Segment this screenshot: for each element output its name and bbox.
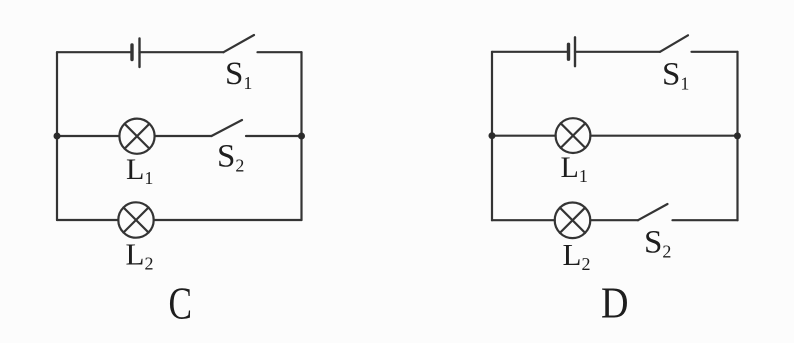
svg-text:C: C — [169, 278, 193, 329]
junction node left (C) — [54, 133, 61, 140]
wire: C middle branch left segment — [57, 135, 119, 137]
junction node right (D) — [734, 132, 741, 139]
wire: D left vertical — [491, 52, 493, 220]
switch S1 blade (C) — [224, 35, 255, 52]
switch S2 blade (D) — [638, 204, 668, 220]
battery C short plate (negative) — [130, 45, 133, 60]
wire: C top middle segment — [140, 51, 224, 53]
wire: D top middle segment — [575, 51, 660, 53]
lamp L1 (D) — [556, 118, 591, 153]
wire: C middle branch center segment — [155, 135, 212, 137]
lamp L1 (C) — [119, 119, 154, 154]
wire: D middle branch right segment — [590, 135, 737, 137]
wire: D bottom branch right segment — [673, 219, 738, 221]
junction node right (C) — [298, 133, 305, 140]
switch S2 blade (C) — [212, 120, 243, 136]
battery D short plate (negative) — [567, 44, 570, 59]
wire: D bottom branch middle segment — [590, 219, 638, 221]
wire: C right vertical — [300, 52, 302, 220]
wire: C middle branch right segment — [246, 135, 302, 137]
lamp L2 (D) — [555, 203, 591, 239]
wire: D bottom branch left segment — [492, 219, 555, 221]
battery C long plate (positive) — [138, 39, 140, 68]
junction node left (D) — [489, 132, 496, 139]
wire: D top-left segment — [492, 51, 568, 53]
battery D long plate (positive) — [574, 37, 576, 66]
switch S1 blade (D) — [660, 35, 688, 52]
wire: C bottom branch left segment — [57, 219, 118, 221]
wire: C top-right segment — [258, 51, 302, 53]
wire: D middle branch left segment — [492, 135, 556, 137]
wire: C top-left segment — [57, 51, 131, 53]
wire: C bottom branch right segment — [154, 219, 302, 221]
svg-text:D: D — [601, 279, 629, 328]
wire: D right vertical — [736, 52, 738, 220]
wire: C left vertical — [56, 52, 58, 220]
wire: D top-right segment — [692, 51, 738, 53]
lamp L2 (C) — [118, 202, 153, 237]
